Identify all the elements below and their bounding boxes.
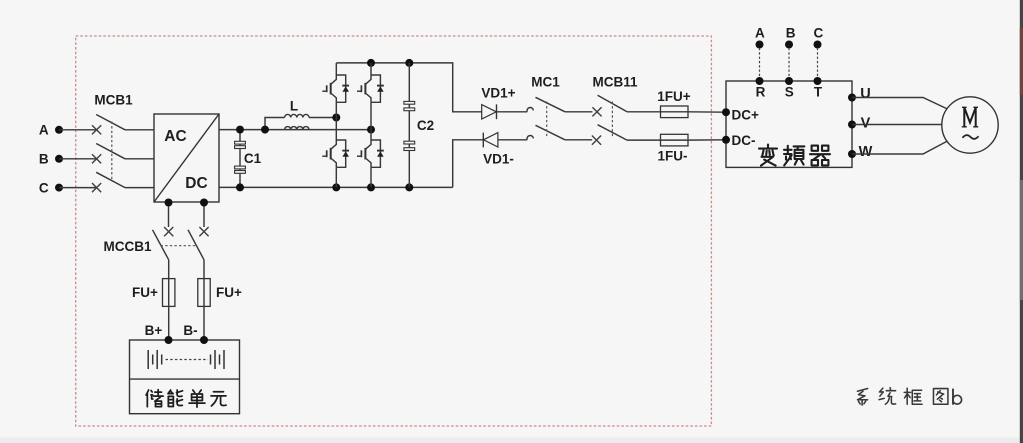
battery label chuneng danyuan glyph dan	[189, 390, 205, 407]
node A top terminal dot	[756, 41, 764, 49]
battery label chuneng danyuan glyph chu	[146, 390, 163, 407]
battery GB1 dashed middle	[166, 359, 209, 361]
node C terminal dot	[55, 184, 63, 192]
wire U to motor	[852, 98, 948, 110]
battery label chuneng danyuan glyph yuan	[211, 392, 226, 406]
junction dot B-	[200, 336, 208, 344]
breaker MCCB1 linkage dashed	[161, 245, 196, 247]
svg-text:U: U	[860, 86, 870, 102]
node B terminal dot	[55, 155, 63, 163]
fuse 1FU+	[661, 106, 727, 118]
inverter label bianpinqi glyph bian	[759, 145, 777, 166]
junction dot bottom rail leg1	[332, 183, 340, 191]
capacitor C1	[235, 130, 262, 188]
wire DC- bus from converter	[219, 186, 453, 188]
svg-text:MCB11: MCB11	[592, 75, 638, 90]
wire C dashed drop	[817, 48, 819, 81]
svg-text:C1: C1	[244, 151, 262, 166]
inductor L phase 2 in line	[285, 127, 309, 130]
battery GB1 box	[130, 340, 240, 414]
svg-text:S: S	[785, 85, 794, 100]
caption label xitong kuangtu glyph tong	[879, 388, 896, 405]
junction dot C1 top	[236, 126, 244, 134]
junction dot L branch	[261, 126, 269, 134]
breaker MCB1 pole B	[92, 144, 154, 164]
svg-text:VD1+: VD1+	[481, 86, 515, 101]
svg-text:MCCB1: MCCB1	[103, 239, 151, 254]
wire V to motor	[852, 124, 942, 126]
fuse 1FU-	[661, 134, 727, 146]
svg-text:R: R	[756, 85, 766, 100]
contactor MC1 pole -	[527, 125, 592, 140]
diode VD1+	[482, 104, 528, 119]
svg-text:C: C	[814, 26, 824, 41]
svg-text:1FU-: 1FU-	[658, 149, 688, 164]
junction dot C1 bottom	[236, 183, 244, 191]
junction dot leg1 midpoint	[332, 114, 340, 122]
wire converter bottom left drop	[168, 203, 170, 228]
svg-text:B: B	[786, 26, 796, 41]
pin W dot	[848, 150, 856, 158]
svg-text:B+: B+	[145, 323, 163, 338]
svg-text:FU+: FU+	[132, 285, 158, 300]
wire bottom rail riser	[453, 140, 484, 188]
node A terminal dot	[55, 126, 63, 134]
breaker MCB11 pole -	[592, 125, 661, 145]
caption label letter b	[953, 389, 962, 405]
converter U1 AC/DC box	[154, 114, 219, 202]
svg-text:FU+: FU+	[216, 285, 242, 300]
pin U dot	[848, 94, 856, 102]
breaker MCB1 pole A	[92, 115, 154, 135]
wire converter bottom right drop	[203, 203, 205, 228]
junction dot leg2 midpoint	[367, 126, 375, 134]
transistor V1 IGBT leg1 top	[322, 63, 349, 140]
fuse FU+ left	[163, 279, 175, 340]
inverter label bianpinqi glyph pin	[784, 146, 804, 166]
wire A to MCB1	[59, 129, 97, 131]
caption label xitong kuangtu glyph tu	[933, 389, 947, 405]
svg-text:MCB1: MCB1	[94, 93, 133, 108]
contactor MC1 pole +	[527, 97, 592, 112]
motor M1 circle	[942, 97, 998, 153]
wire W to motor	[852, 141, 948, 154]
caption label xitong kuangtu glyph kuang	[904, 388, 922, 404]
battery GB1 cell plates right	[211, 350, 225, 369]
svg-text:C: C	[39, 180, 49, 195]
inverter label bianpinqi glyph qi	[810, 146, 830, 166]
pin S dot	[785, 77, 793, 85]
battery label chuneng danyuan glyph neng	[168, 390, 182, 406]
junction dot bottom rail leg2	[367, 183, 375, 191]
junction dot bottom rail C2	[405, 183, 413, 191]
junction dot converter bottom right	[200, 199, 208, 207]
breaker MCB1 linkage dashed	[111, 122, 113, 181]
svg-text:T: T	[814, 85, 823, 100]
transistor V2 IGBT leg2 top	[357, 63, 384, 140]
transistor V4 IGBT leg2 bottom	[357, 140, 384, 187]
svg-text:L: L	[290, 99, 298, 114]
breaker MCB1 pole C	[92, 172, 154, 192]
svg-text:C2: C2	[417, 118, 434, 133]
junction dot top rail C2	[405, 59, 413, 67]
wire B to MCB1	[59, 158, 97, 160]
node B top terminal dot	[785, 41, 793, 49]
svg-text:DC: DC	[185, 175, 207, 192]
motor M1 tilde	[963, 135, 979, 139]
wire top rail	[336, 63, 481, 112]
svg-text:VD1-: VD1-	[483, 152, 514, 167]
breaker MCCB1 pole left	[153, 227, 174, 279]
svg-text:A: A	[755, 26, 765, 41]
caption label xitong kuangtu glyph xi	[857, 389, 867, 406]
svg-text:DC+: DC+	[732, 107, 759, 122]
svg-text:V: V	[861, 115, 871, 131]
wire DC+ bus from converter	[219, 129, 371, 131]
wire C to MCB1	[59, 187, 97, 189]
svg-text:1FU+: 1FU+	[657, 89, 691, 104]
pin DC+ dot	[722, 108, 730, 116]
svg-text:B: B	[39, 152, 49, 167]
inductor L phase 1 branch	[265, 114, 336, 129]
battery GB1 cell plates left	[148, 350, 162, 369]
battery GB1 divider	[130, 378, 240, 380]
pin DC- dot	[722, 136, 730, 144]
fuse FU+ right	[198, 279, 210, 340]
breaker MCB11 pole +	[592, 95, 660, 116]
svg-text:A: A	[39, 123, 49, 138]
svg-text:AC: AC	[164, 128, 186, 145]
junction dot B+	[165, 336, 173, 344]
diode VD1-	[483, 133, 527, 148]
transistor V3 IGBT leg1 bottom	[322, 140, 349, 187]
bottom edge screen artifact strip	[0, 438, 1023, 443]
svg-text:B-: B-	[183, 323, 197, 338]
svg-text:W: W	[859, 144, 873, 160]
contactor MC1 linkage dashed	[546, 102, 548, 137]
inverter U2 box	[726, 81, 852, 167]
right edge screen artifact strip	[1020, 0, 1023, 443]
svg-text:DC-: DC-	[732, 133, 756, 148]
junction dot top rail leg2	[367, 59, 375, 67]
svg-text:MC1: MC1	[531, 75, 560, 90]
breaker MCB11 linkage dashed	[611, 102, 613, 137]
wire B dashed drop	[788, 48, 790, 81]
pin T dot	[814, 77, 822, 85]
capacitor C2	[404, 63, 434, 187]
motor M1 letter	[962, 107, 978, 127]
breaker MCCB1 pole right	[188, 227, 209, 279]
pin V dot	[848, 121, 856, 129]
pin R dot	[756, 77, 764, 85]
dashed enclosure border	[76, 36, 712, 426]
wire A dashed drop	[759, 48, 761, 81]
node C top terminal dot	[814, 41, 822, 49]
junction dot converter bottom left	[165, 199, 173, 207]
